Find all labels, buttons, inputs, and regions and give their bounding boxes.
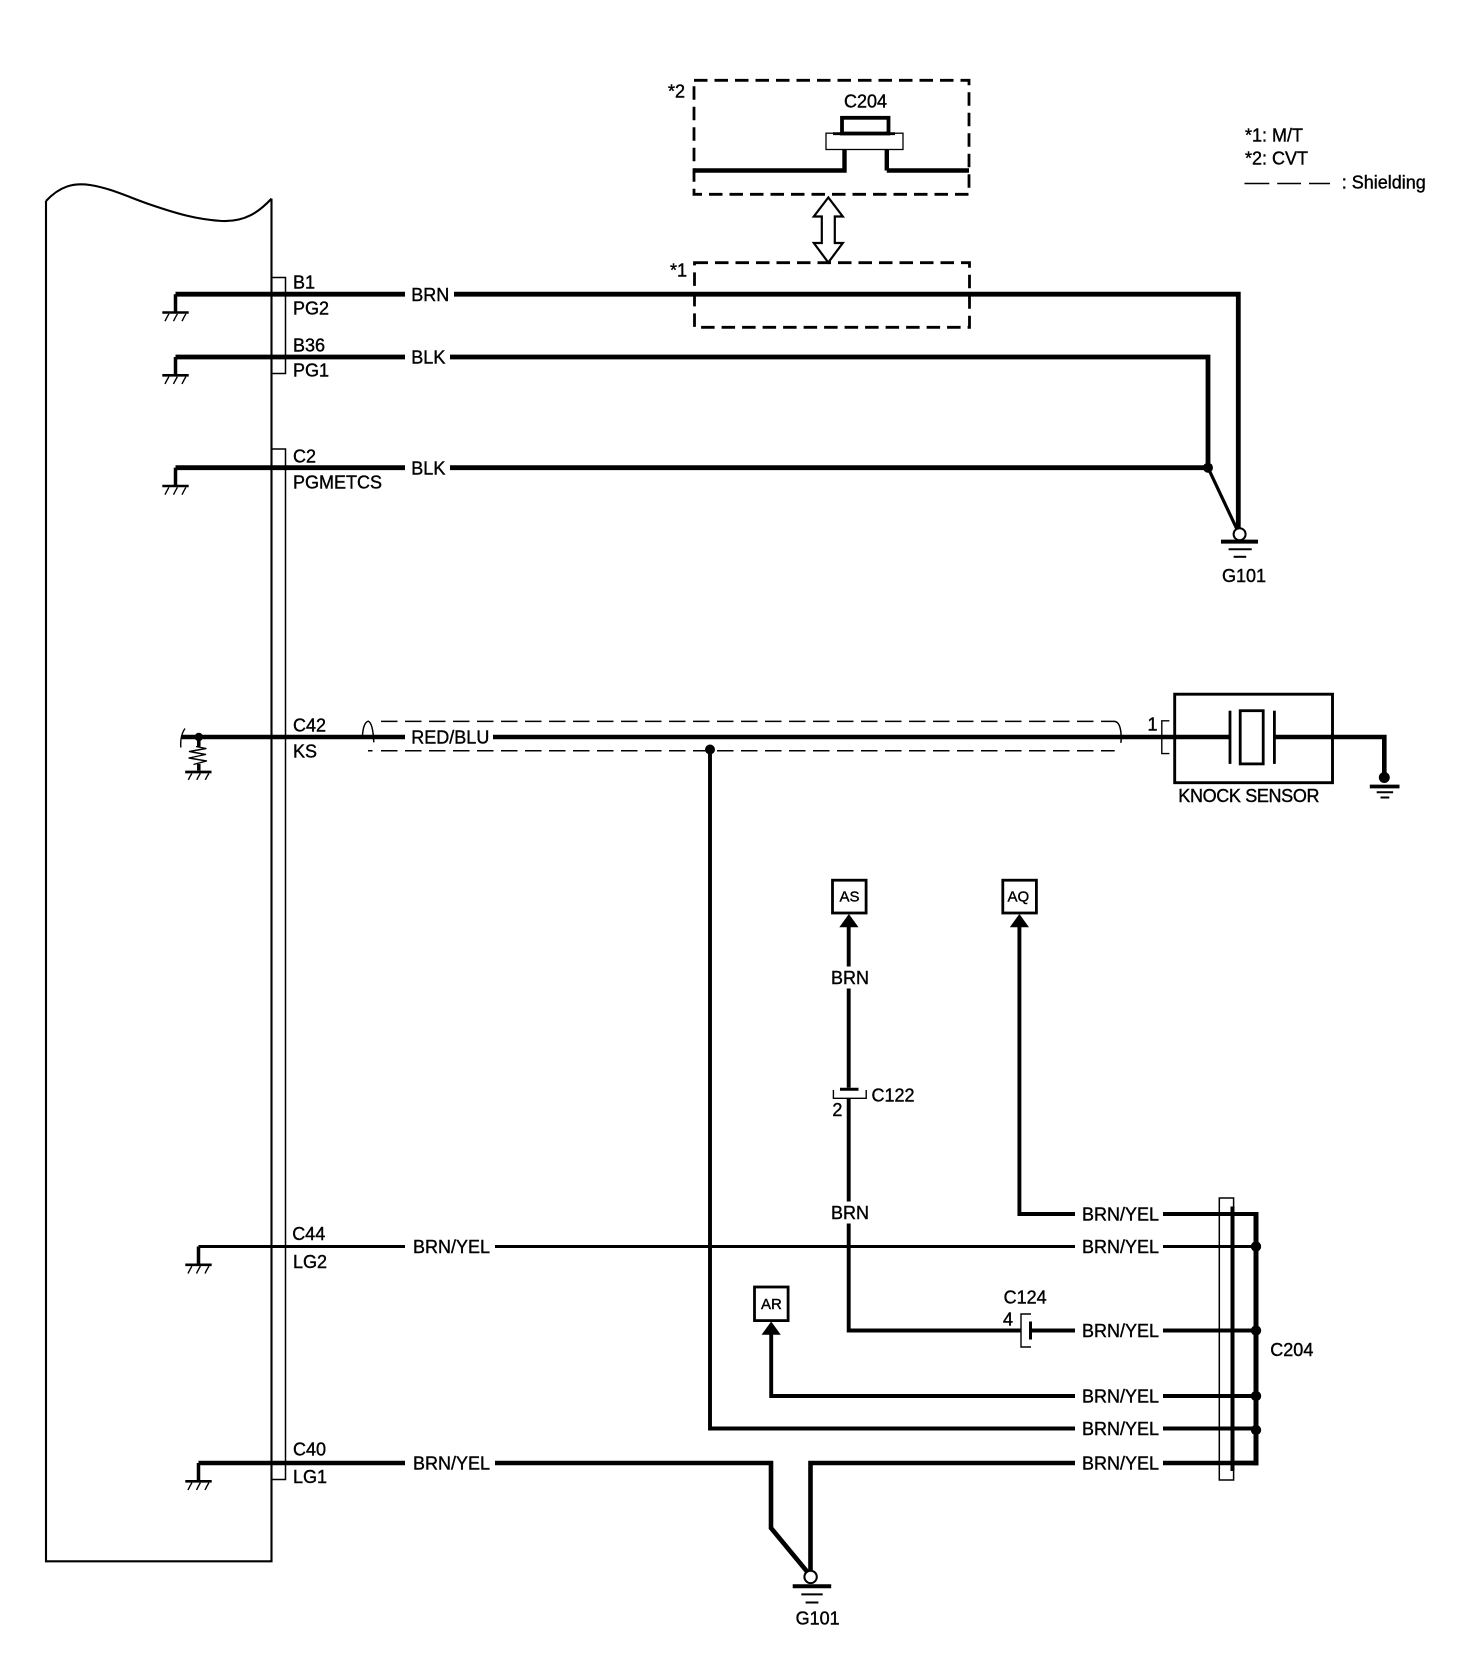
- svg-text:LG2: LG2: [293, 1252, 327, 1272]
- svg-text:C2: C2: [293, 446, 316, 466]
- svg-text:BRN/YEL: BRN/YEL: [1082, 1237, 1159, 1257]
- svg-text:PGMETCS: PGMETCS: [293, 472, 382, 492]
- svg-text:BRN: BRN: [831, 968, 869, 988]
- svg-text:BRN/YEL: BRN/YEL: [1082, 1454, 1159, 1474]
- svg-text:*1: M/T: *1: M/T: [1245, 126, 1303, 146]
- svg-text:*2: *2: [668, 82, 685, 102]
- svg-text:BRN/YEL: BRN/YEL: [1082, 1419, 1159, 1439]
- svg-text:BRN: BRN: [411, 285, 449, 305]
- svg-text:4: 4: [1003, 1310, 1013, 1330]
- svg-text:C44: C44: [292, 1224, 325, 1244]
- svg-text:LG1: LG1: [293, 1467, 327, 1487]
- svg-text:PG1: PG1: [293, 361, 329, 381]
- svg-text:BRN/YEL: BRN/YEL: [413, 1237, 490, 1257]
- svg-text:BRN/YEL: BRN/YEL: [1082, 1321, 1159, 1341]
- svg-text:C42: C42: [293, 715, 326, 735]
- svg-text:C122: C122: [872, 1085, 915, 1105]
- svg-text:*2: CVT: *2: CVT: [1245, 149, 1308, 169]
- svg-text:C124: C124: [1004, 1288, 1047, 1308]
- svg-text:KNOCK SENSOR: KNOCK SENSOR: [1178, 786, 1319, 806]
- svg-text:BRN/YEL: BRN/YEL: [1082, 1205, 1159, 1225]
- svg-text:C204: C204: [844, 92, 887, 112]
- svg-text:2: 2: [832, 1100, 842, 1120]
- svg-text:PG2: PG2: [293, 299, 329, 319]
- svg-text:B1: B1: [293, 273, 315, 293]
- svg-text:KS: KS: [293, 742, 317, 762]
- svg-text:: Shielding: : Shielding: [1342, 173, 1426, 193]
- svg-text:AQ: AQ: [1008, 889, 1030, 906]
- svg-text:BLK: BLK: [411, 348, 445, 368]
- svg-text:C40: C40: [293, 1440, 326, 1460]
- svg-text:AR: AR: [761, 1296, 782, 1313]
- svg-text:1: 1: [1148, 715, 1158, 735]
- svg-text:G101: G101: [1222, 566, 1266, 586]
- svg-text:*1: *1: [670, 260, 687, 280]
- svg-text:G101: G101: [796, 1609, 840, 1629]
- svg-text:AS: AS: [840, 889, 860, 906]
- svg-text:C204: C204: [1270, 1340, 1313, 1360]
- svg-text:BRN/YEL: BRN/YEL: [413, 1454, 490, 1474]
- svg-text:BRN/YEL: BRN/YEL: [1082, 1387, 1159, 1407]
- svg-text:RED/BLU: RED/BLU: [411, 728, 489, 748]
- svg-text:BRN: BRN: [831, 1203, 869, 1223]
- svg-text:BLK: BLK: [411, 458, 445, 478]
- svg-text:B36: B36: [293, 335, 325, 355]
